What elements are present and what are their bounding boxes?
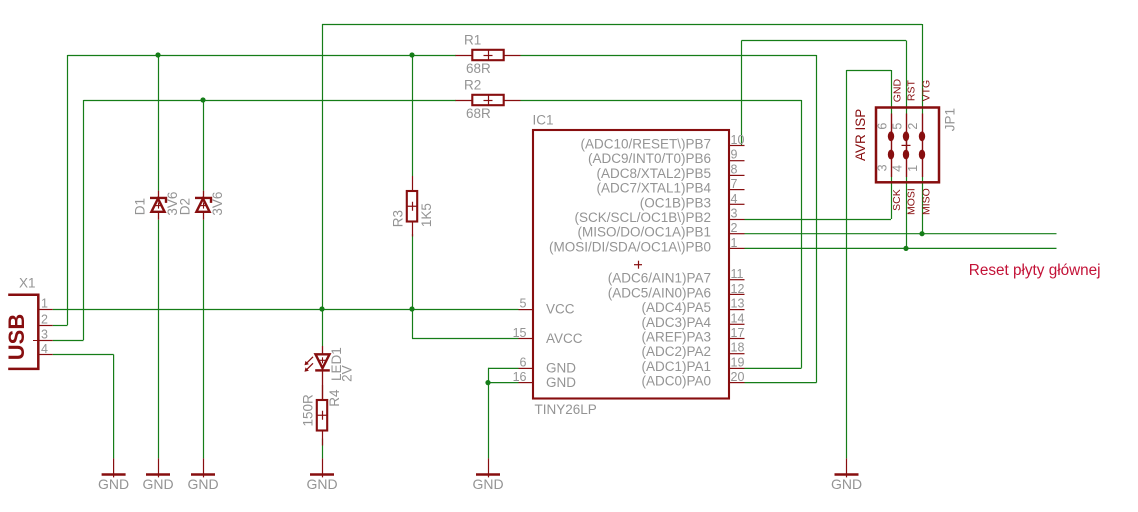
svg-text:18: 18 bbox=[731, 341, 745, 355]
svg-text:(ADC0)PA0: (ADC0)PA0 bbox=[641, 374, 711, 389]
pin stub 16 of IC1 bbox=[519, 382, 534, 384]
svg-text:JP1: JP1 bbox=[942, 108, 957, 131]
wire D- net left segment (USB2 to R1) bbox=[68, 55, 457, 57]
svg-text:GND: GND bbox=[831, 476, 862, 492]
svg-text:(ADC4)PA5: (ADC4)PA5 bbox=[641, 300, 711, 315]
wire ISP pad4 down to MOSI bbox=[906, 177, 908, 248]
pin stub 12 of IC1 bbox=[729, 293, 745, 295]
svg-text:MOSI: MOSI bbox=[906, 188, 918, 215]
wire USB pin2 to riser bbox=[53, 325, 68, 327]
svg-text:17: 17 bbox=[731, 326, 745, 340]
svg-text:TINY26LP: TINY26LP bbox=[535, 402, 597, 417]
svg-text:(ADC3)PA4: (ADC3)PA4 bbox=[641, 315, 711, 330]
wire VCC main horizontal (USB1 to IC pin5) bbox=[53, 309, 519, 311]
resistor R3 bbox=[412, 176, 414, 191]
wire riser USB2/D- bbox=[67, 55, 69, 325]
USB connector X1 bbox=[8, 295, 38, 369]
svg-text:6: 6 bbox=[520, 355, 527, 369]
node D1/D- junction bbox=[155, 52, 160, 57]
wire ISP GND drop to GND symbol bbox=[846, 70, 848, 458]
svg-text:1K5: 1K5 bbox=[419, 203, 434, 227]
svg-text:(ADC1)PA1: (ADC1)PA1 bbox=[641, 359, 711, 374]
ground symbol GND4 bbox=[322, 458, 324, 477]
svg-text:(MOSI/DI/SDA/OC1A\)PB0: (MOSI/DI/SDA/OC1A\)PB0 bbox=[549, 239, 711, 254]
wire ISP pad6 up to GND link bbox=[891, 70, 893, 114]
wire ISP pad3 down to SCK bbox=[891, 177, 893, 219]
svg-text:8: 8 bbox=[731, 162, 738, 176]
wire AVCC horizontal bbox=[412, 338, 519, 340]
pin stub 18 of IC1 bbox=[729, 353, 745, 355]
pin stub 13 of IC1 bbox=[729, 309, 745, 311]
wire ISP GND link horizontal bbox=[847, 70, 892, 72]
IC origin cross bbox=[634, 264, 642, 266]
wire VCC top rail to JP1 VTG bbox=[322, 24, 922, 26]
node MOSI junction bbox=[903, 246, 908, 251]
svg-text:11: 11 bbox=[731, 267, 744, 281]
resistor R4 bbox=[322, 385, 324, 400]
node R3/D- junction bbox=[409, 52, 414, 57]
svg-text:68R: 68R bbox=[466, 61, 491, 76]
wire USB4 down to GND bbox=[113, 355, 115, 459]
svg-text:20: 20 bbox=[731, 370, 745, 384]
svg-text:GND: GND bbox=[891, 79, 903, 103]
ground symbol GND5 bbox=[488, 458, 490, 477]
svg-text:3: 3 bbox=[731, 207, 738, 221]
resistor R2 bbox=[456, 100, 473, 102]
zener diode D2 bbox=[203, 191, 205, 198]
wire VCC to LED anode bbox=[322, 309, 324, 346]
ground symbol GND2 bbox=[158, 458, 160, 477]
ground symbol GND6 bbox=[846, 458, 848, 477]
svg-text:16: 16 bbox=[513, 370, 527, 384]
wire PA0 to riser bbox=[745, 382, 817, 384]
wire RST net horizontal bbox=[742, 40, 907, 42]
zener diode D1 bbox=[158, 191, 160, 198]
wire ISP pad1 down to MISO bbox=[922, 177, 924, 234]
pin stub 17 of IC1 bbox=[729, 338, 745, 340]
svg-text:D2: D2 bbox=[177, 198, 192, 215]
pin stub 9 of IC1 bbox=[729, 160, 745, 162]
wire D1 bottom to GND bbox=[158, 220, 160, 459]
node IC GND junction bbox=[485, 380, 490, 385]
wire PA1 to riser bbox=[745, 367, 802, 369]
wire D- to R3 top bbox=[412, 55, 414, 176]
svg-text:(ADC6/AIN1)PA7: (ADC6/AIN1)PA7 bbox=[608, 271, 711, 286]
svg-text:VCC: VCC bbox=[546, 302, 575, 317]
svg-text:(ADC8/XTAL2)PB5: (ADC8/XTAL2)PB5 bbox=[596, 166, 711, 181]
pin stub 10 of IC1 bbox=[729, 145, 745, 147]
wire SCK net horizontal bbox=[745, 219, 892, 221]
wire USB pin3 to riser bbox=[53, 340, 84, 342]
wire D- drop to PA0 bbox=[816, 55, 818, 383]
svg-text:Reset płyty głównej: Reset płyty głównej bbox=[969, 262, 1101, 279]
svg-text:5: 5 bbox=[520, 297, 527, 311]
svg-text:4: 4 bbox=[41, 342, 48, 356]
svg-text:D1: D1 bbox=[132, 198, 147, 215]
svg-text:12: 12 bbox=[731, 282, 745, 296]
wire R4 to GND bbox=[322, 439, 324, 459]
svg-text:13: 13 bbox=[731, 297, 745, 311]
svg-text:(AREF)PA3: (AREF)PA3 bbox=[641, 330, 711, 345]
wire D2 bottom to GND bbox=[203, 220, 205, 459]
svg-text:USB: USB bbox=[4, 314, 29, 360]
wire R3 bottom to VCC and AVCC bbox=[412, 234, 414, 339]
svg-text:3: 3 bbox=[875, 164, 889, 171]
svg-text:R4: R4 bbox=[327, 389, 342, 407]
svg-text:14: 14 bbox=[731, 311, 745, 325]
svg-text:VTG: VTG bbox=[921, 80, 933, 102]
svg-text:6: 6 bbox=[875, 123, 889, 130]
wire D+ net right segment (R2 to PA1 drop) bbox=[521, 100, 802, 102]
svg-text:(SCK/SCL/OC1B\)PB2: (SCK/SCL/OC1B\)PB2 bbox=[574, 210, 711, 225]
svg-text:GND: GND bbox=[98, 476, 129, 492]
svg-text:15: 15 bbox=[513, 326, 527, 340]
ground symbol GND1 bbox=[113, 458, 115, 477]
svg-text:5: 5 bbox=[890, 123, 904, 130]
svg-text:SCK: SCK bbox=[891, 189, 903, 211]
wire MOSI net horizontal long bbox=[745, 247, 1057, 249]
wire D+ drop to PA1 bbox=[801, 100, 803, 368]
svg-text:3V6: 3V6 bbox=[210, 192, 225, 216]
IC U1 TINY26LP body bbox=[533, 130, 729, 399]
svg-text:GND: GND bbox=[306, 476, 337, 492]
svg-text:MISO: MISO bbox=[921, 188, 933, 215]
svg-text:2: 2 bbox=[41, 313, 48, 327]
svg-text:(ADC10/RESET\)PB7: (ADC10/RESET\)PB7 bbox=[580, 137, 711, 152]
wire D1 top from D- net bbox=[158, 55, 160, 191]
pin stub 8 of IC1 bbox=[729, 174, 745, 176]
LED LED1 bbox=[322, 346, 324, 354]
pin stub 14 of IC1 bbox=[729, 323, 745, 325]
wire VCC riser x322 bbox=[322, 24, 324, 309]
wire MISO net horizontal long bbox=[745, 233, 1057, 235]
svg-text:1: 1 bbox=[731, 236, 738, 250]
resistor R1 bbox=[456, 55, 473, 57]
pin stub 19 of IC1 bbox=[729, 367, 745, 369]
svg-text:3: 3 bbox=[41, 328, 48, 342]
wire ISP pad2 up to VTG bbox=[922, 24, 924, 114]
connector JP1 AVR ISP bbox=[876, 108, 939, 183]
pin stub 3 of IC1 bbox=[729, 219, 745, 221]
svg-text:GND: GND bbox=[546, 375, 576, 390]
svg-text:68R: 68R bbox=[466, 106, 491, 121]
pin stub 7 of IC1 bbox=[729, 189, 745, 191]
ground symbol GND3 bbox=[203, 458, 205, 477]
svg-text:(ADC2)PA2: (ADC2)PA2 bbox=[641, 344, 711, 359]
svg-text:GND: GND bbox=[472, 476, 503, 492]
svg-text:2V: 2V bbox=[340, 365, 355, 382]
pin stub 2 of IC1 bbox=[729, 233, 745, 235]
wire IC GND drop x488 bbox=[488, 368, 490, 459]
svg-text:RST: RST bbox=[906, 80, 918, 102]
svg-text:R1: R1 bbox=[464, 33, 481, 48]
svg-text:2: 2 bbox=[731, 221, 738, 235]
svg-text:GND: GND bbox=[187, 476, 218, 492]
svg-text:9: 9 bbox=[731, 148, 738, 162]
svg-text:1: 1 bbox=[906, 165, 920, 172]
svg-text:19: 19 bbox=[731, 355, 745, 369]
svg-text:R2: R2 bbox=[464, 78, 481, 93]
wire IC pin16 GND stub link bbox=[488, 382, 519, 384]
pin stub 11 of IC1 bbox=[729, 279, 745, 281]
node R3-AVCC/VCC junction bbox=[409, 306, 414, 311]
svg-text:1: 1 bbox=[41, 297, 48, 311]
pin stub 5 of IC1 bbox=[519, 309, 534, 311]
svg-text:(ADC7/XTAL1)PB4: (ADC7/XTAL1)PB4 bbox=[596, 181, 711, 196]
svg-text:R3: R3 bbox=[390, 210, 405, 227]
wire D2 top from D+ net bbox=[203, 100, 205, 191]
svg-text:150R: 150R bbox=[301, 394, 316, 427]
svg-text:AVR ISP: AVR ISP bbox=[853, 109, 868, 161]
pin stub 15 of IC1 bbox=[519, 338, 534, 340]
svg-text:X1: X1 bbox=[19, 276, 36, 291]
pin stub 6 of IC1 bbox=[519, 367, 534, 369]
pin stub 1 of IC1 bbox=[729, 247, 745, 249]
svg-text:(MISO/DO/OC1A)PB1: (MISO/DO/OC1A)PB1 bbox=[577, 225, 711, 240]
pin stub 20 of IC1 bbox=[729, 382, 745, 384]
wire riser USB3/D+ bbox=[83, 100, 85, 340]
wire D- net right segment (R1 to PA0 drop) bbox=[521, 55, 817, 57]
node LED/VCC junction bbox=[319, 306, 324, 311]
wire USB pin4 to GND bbox=[53, 354, 114, 356]
svg-text:AVCC: AVCC bbox=[546, 331, 583, 346]
wire D+ net left segment (USB3 to R2) bbox=[84, 100, 457, 102]
node D2/D+ junction bbox=[200, 97, 205, 102]
svg-text:GND: GND bbox=[142, 476, 173, 492]
svg-text:7: 7 bbox=[731, 177, 738, 191]
svg-text:(ADC9/INT0/T0)PB6: (ADC9/INT0/T0)PB6 bbox=[588, 151, 711, 166]
pin stub 4 of IC1 bbox=[729, 203, 745, 205]
svg-text:GND: GND bbox=[546, 360, 576, 375]
svg-text:4: 4 bbox=[731, 192, 738, 206]
node MISO junction bbox=[919, 231, 924, 236]
svg-text:(OC1B)PB3: (OC1B)PB3 bbox=[640, 195, 711, 210]
svg-text:10: 10 bbox=[731, 133, 745, 147]
svg-text:2: 2 bbox=[906, 123, 920, 130]
svg-text:IC1: IC1 bbox=[533, 113, 554, 128]
wire IC pin6 GND stub link bbox=[488, 367, 519, 369]
wire RST drop to IC pin10 bbox=[741, 41, 743, 146]
svg-text:(ADC5/AIN0)PA6: (ADC5/AIN0)PA6 bbox=[608, 285, 711, 300]
svg-text:4: 4 bbox=[890, 165, 904, 172]
wire ISP pad5 up to RST bbox=[906, 41, 908, 114]
